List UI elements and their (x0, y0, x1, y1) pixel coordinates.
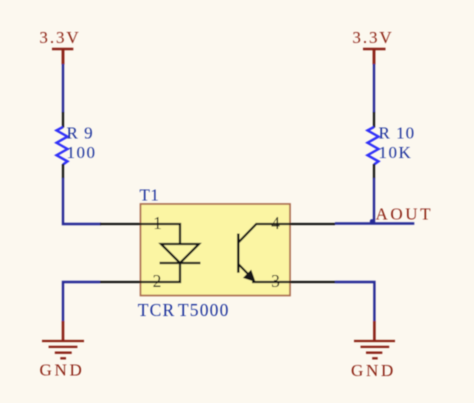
svg-text:3: 3 (271, 271, 280, 291)
svg-text:TCRT5000: TCRT5000 (138, 300, 230, 320)
svg-text:GND: GND (40, 361, 85, 380)
svg-text:100: 100 (67, 143, 97, 162)
svg-text:2: 2 (153, 271, 162, 291)
svg-text:3.3V: 3.3V (352, 28, 393, 47)
svg-text:1: 1 (153, 213, 162, 233)
svg-text:3.3V: 3.3V (39, 28, 80, 47)
svg-text:10K: 10K (379, 143, 413, 162)
svg-text:AOUT: AOUT (376, 204, 434, 223)
svg-text:T1: T1 (140, 186, 160, 205)
svg-text:R 9: R 9 (67, 124, 94, 143)
svg-text:4: 4 (271, 213, 280, 233)
svg-text:GND: GND (351, 361, 396, 380)
svg-text:R 10: R 10 (379, 124, 416, 143)
